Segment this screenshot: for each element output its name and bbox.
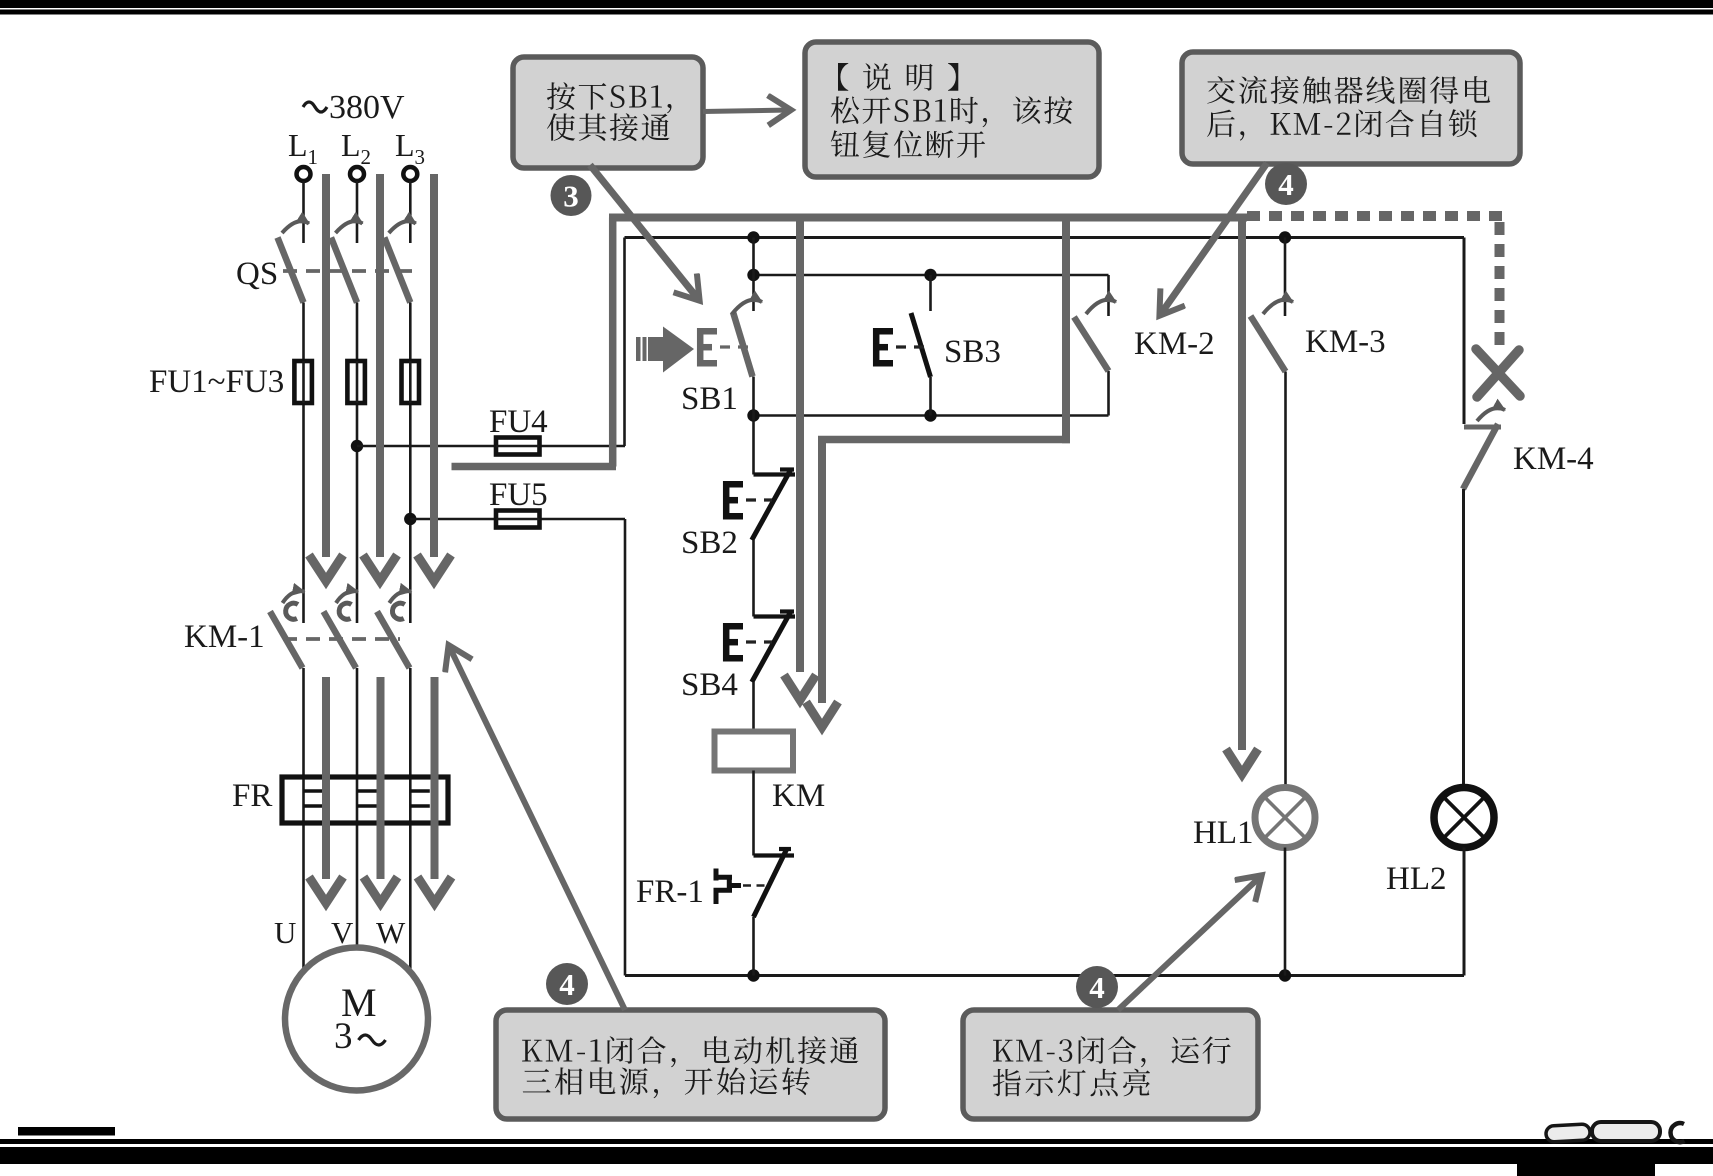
wire control left riser	[623, 238, 626, 447]
KM-1 closing arrow pole1	[286, 603, 298, 619]
KM-3 closing arrow	[1263, 300, 1293, 314]
junction L2-FU4	[351, 440, 363, 452]
energized path drop to coil (SB1 path)	[796, 218, 804, 673]
svg-text:KM-4: KM-4	[1513, 441, 1594, 477]
lamp HL2	[1434, 788, 1494, 848]
KM-1 linkage dashed	[283, 637, 400, 641]
wire L1 lower	[302, 668, 305, 971]
fuse FU2	[347, 361, 365, 403]
svg-text:FR: FR	[232, 778, 272, 814]
note arrow to KM-2	[1160, 163, 1267, 315]
wire L2 mid	[356, 303, 359, 624]
label ~380V	[303, 102, 327, 112]
badge 4 top	[1265, 163, 1307, 205]
wire control return riser	[624, 519, 627, 976]
svg-text:L3: L3	[395, 127, 425, 169]
pushbutton SB1 actuator	[697, 328, 704, 367]
terminal L3	[403, 167, 417, 181]
contact KM-4 blade	[1463, 424, 1498, 489]
QS closing arrow pole3	[389, 221, 416, 233]
pushbutton SB3 actuator	[873, 328, 880, 367]
control bottom bus	[625, 974, 1464, 977]
blocked mark X on KM-4	[1476, 349, 1520, 397]
coil KM	[715, 732, 794, 771]
pushbutton SB4 actuator	[723, 623, 730, 662]
pushbutton SB1 blade	[733, 312, 753, 377]
pushbutton SB4 seat	[754, 614, 796, 618]
note box KM-1 closes	[496, 1010, 885, 1119]
wire SB4-coil	[752, 682, 755, 732]
terminal L1	[297, 167, 311, 181]
badge 3	[551, 175, 592, 216]
junction L3-FU5	[404, 513, 416, 525]
energized path top bus	[609, 214, 1247, 222]
svg-text:W: W	[376, 915, 406, 950]
junction bottom bus HL1	[1279, 969, 1291, 981]
wire SB2-SB4	[752, 540, 755, 617]
KM-1 closing arrow pole2	[339, 603, 351, 619]
current arrow upper phase1	[322, 174, 330, 557]
wire SB1 column	[752, 238, 755, 312]
pushbutton SB2 actuator	[723, 481, 730, 520]
fuse FU1	[294, 361, 312, 403]
KM-1 closing arrow pole3	[392, 603, 404, 619]
svg-text:U: U	[274, 915, 296, 950]
badge 4 left	[546, 963, 588, 1005]
current arrow lower phase1	[322, 677, 330, 879]
current arrow upper phase3	[430, 174, 438, 557]
energized path dashed (blocked)	[1247, 211, 1503, 221]
svg-text:4: 4	[559, 967, 575, 1002]
disconnect QS pole1 blade	[278, 238, 304, 303]
note arrow to HL1	[1118, 876, 1261, 1010]
terminal L2	[350, 167, 364, 181]
control top bus	[625, 236, 1465, 239]
energized path riser to FU4	[609, 218, 617, 467]
disconnect QS pole3 blade	[384, 238, 410, 303]
FR heater pole1	[304, 789, 324, 793]
thermal contact FR-1 blade	[754, 849, 788, 918]
svg-text:FU4: FU4	[489, 404, 548, 440]
current arrow upper phase2	[376, 174, 384, 557]
note box explanation	[805, 42, 1099, 177]
junction top bus SB1	[747, 231, 759, 243]
wire KM-2 column	[1107, 275, 1110, 316]
contact KM-3 blade	[1251, 316, 1286, 372]
svg-text:FU5: FU5	[489, 477, 548, 513]
wire right branch upper	[1463, 238, 1466, 425]
note box press-SB1	[513, 57, 703, 168]
wire L3 drop	[409, 181, 412, 243]
note box KM-3 lamp	[963, 1010, 1258, 1119]
wire KM-3 column	[1284, 238, 1287, 317]
note box KM-2 selflock	[1182, 52, 1520, 164]
junction SB3 bottom	[924, 409, 936, 421]
svg-text:HL1: HL1	[1193, 815, 1254, 851]
KM-4 closing arrow	[1477, 408, 1505, 421]
svg-text:FR-1: FR-1	[636, 874, 704, 910]
contact KM-4 seat	[1464, 425, 1501, 430]
thermal contact FR-1 seat	[754, 853, 795, 857]
contact KM-2 blade	[1074, 317, 1109, 371]
disconnect QS pole2 blade	[331, 238, 357, 303]
pushbutton SB3 blade	[911, 313, 931, 377]
wire L3 lower	[409, 668, 412, 971]
wire FU5 feed	[410, 518, 625, 521]
svg-text:3: 3	[334, 1016, 353, 1057]
lamp HL1	[1255, 788, 1315, 848]
pushbutton SB2 blade	[752, 470, 791, 540]
note arrow box1 to box2	[703, 110, 790, 112]
svg-text:KM: KM	[772, 778, 825, 814]
current arrow lower phase2	[377, 677, 385, 879]
FR heater pole2	[357, 789, 377, 793]
pushbutton SB2 seat	[754, 472, 796, 476]
wire L3 mid	[409, 303, 412, 624]
junction top bus KM-3	[1279, 231, 1291, 243]
svg-text:FU1~FU3: FU1~FU3	[149, 364, 284, 400]
wire SB3 column	[929, 275, 932, 311]
SB1 closing arrow	[732, 300, 762, 314]
thermal relay FR box	[282, 777, 448, 823]
junction SB3 top	[924, 269, 936, 281]
svg-text:SB1: SB1	[681, 381, 738, 417]
svg-text:SB4: SB4	[681, 667, 738, 703]
energized path drop to HL1	[1238, 218, 1246, 751]
badge 4 right	[1076, 966, 1118, 1008]
svg-text:SB2: SB2	[681, 525, 738, 561]
note arrow to KM-1	[449, 646, 625, 1010]
svg-text:4: 4	[1089, 970, 1105, 1005]
svg-text:L1: L1	[288, 127, 318, 169]
contactor KM-1 pole3 blade	[377, 612, 410, 669]
fuse FU3	[402, 361, 420, 403]
wire FR1-bus	[752, 917, 755, 976]
parallel branch bottom rail	[754, 414, 1109, 417]
junction SB1 top	[747, 269, 759, 281]
press arrow SB1	[636, 327, 694, 373]
note arrow to SB1	[590, 165, 699, 300]
thermal contact FR-1 actuator	[714, 869, 742, 905]
junction SB1 bottom	[747, 409, 759, 421]
contactor KM-1 pole2 blade	[324, 612, 357, 669]
FR heater pole3	[410, 789, 430, 793]
pushbutton SB4 blade	[752, 612, 791, 682]
svg-text:4: 4	[1278, 167, 1294, 202]
wire L1 drop	[302, 181, 305, 243]
wire L1 mid	[302, 303, 305, 624]
QS closing arrow pole2	[336, 221, 363, 233]
junction bottom bus FR-1	[747, 969, 759, 981]
svg-text:SB3: SB3	[944, 334, 1001, 370]
svg-text:HL2: HL2	[1386, 861, 1447, 897]
svg-text:KM-1: KM-1	[184, 619, 265, 655]
current arrow lower phase3	[431, 677, 439, 879]
svg-text:380V: 380V	[329, 89, 405, 126]
energized path drop via KM-2	[1062, 218, 1070, 444]
QS closing arrow pole1	[282, 221, 309, 233]
svg-text:3: 3	[563, 179, 579, 214]
parallel branch top rail	[754, 274, 1109, 277]
wire KM-4 to HL2	[1462, 489, 1465, 788]
svg-text:KM-2: KM-2	[1134, 326, 1215, 362]
wire HL1-bus	[1284, 848, 1287, 976]
fuse FU4	[496, 438, 540, 455]
fuse FU5	[496, 511, 540, 528]
wire FU4 feed	[357, 445, 625, 448]
svg-text:KM-3: KM-3	[1305, 324, 1386, 360]
wire L2 lower	[356, 668, 359, 948]
wire L2 drop	[356, 181, 359, 243]
contactor KM-1 pole1 blade	[270, 612, 303, 669]
wire coil-FR1	[752, 771, 755, 856]
svg-text:QS: QS	[236, 256, 278, 292]
wire HL2 to bus	[1463, 848, 1466, 976]
svg-text:L2: L2	[341, 127, 371, 169]
motor M 3~	[285, 948, 428, 1091]
QS linkage dashed	[283, 269, 412, 273]
KM-2 closing arrow	[1086, 300, 1116, 314]
